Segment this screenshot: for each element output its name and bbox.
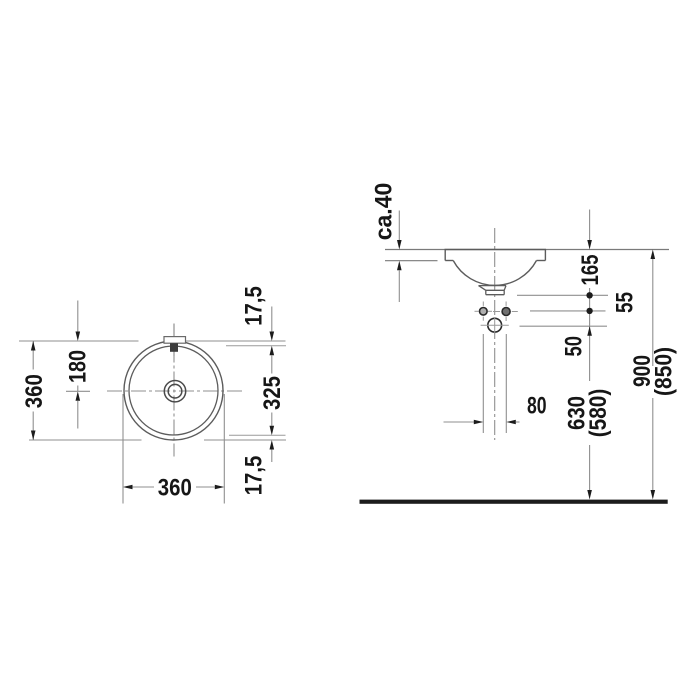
dimension column 165 / 55 / 50 / 630(580)	[560, 210, 638, 500]
basin rim front	[445, 249, 547, 261]
drain fitting front	[479, 286, 507, 295]
centerline horizontal (top view)	[107, 390, 244, 392]
ref line 165 level	[517, 294, 608, 296]
centerline vertical (top view)	[173, 324, 175, 457]
dimension 360 vertical left	[21, 341, 48, 440]
drain trap circle	[481, 317, 509, 334]
dimension 17,5 bottom right	[241, 440, 275, 495]
left supply fitting	[475, 302, 493, 321]
countertop bottom line	[385, 260, 438, 262]
extension line outer top left	[19, 340, 139, 342]
dimension 80	[444, 392, 547, 424]
floor line	[360, 500, 668, 504]
extension line outer bottom left	[29, 439, 142, 441]
centerline through tab	[173, 324, 175, 357]
drain outer circle (top view)	[164, 381, 185, 402]
extension line bottom left (360 width)	[122, 394, 124, 504]
dimension 325 right	[259, 346, 286, 435]
extension line outer top right	[186, 340, 286, 342]
dot at 55 level	[586, 308, 592, 314]
svg-text:325: 325	[259, 376, 286, 410]
svg-text:360: 360	[21, 374, 48, 408]
basin inner rim circle	[129, 346, 218, 435]
tap platform tab	[164, 337, 186, 344]
extension line outer bottom right	[204, 439, 286, 441]
dimension 17,5 top right	[241, 286, 275, 341]
overflow mark	[170, 343, 178, 352]
svg-text:17,5: 17,5	[241, 456, 268, 496]
extension line inner bottom right	[229, 434, 286, 436]
svg-text:165: 165	[577, 255, 604, 286]
ref line 50 level	[520, 325, 608, 327]
svg-text:(850): (850)	[651, 347, 678, 396]
dimension ca.40	[371, 183, 402, 302]
dimension 360 bottom	[123, 475, 224, 502]
waste pipe extension line right	[505, 334, 507, 433]
svg-text:55: 55	[612, 292, 639, 313]
svg-text:360: 360	[158, 475, 192, 502]
dimension 180	[65, 301, 92, 429]
basin outer rim circle	[124, 341, 223, 440]
svg-text:180: 180	[65, 350, 92, 383]
svg-text:50: 50	[560, 336, 587, 357]
extension line bottom right (360 width)	[223, 394, 225, 504]
arrow up at 50 level	[587, 326, 592, 336]
dot at 165 level	[586, 292, 592, 298]
basin bowl front	[453, 261, 536, 286]
svg-text:(580): (580)	[585, 389, 612, 438]
waste pipe extension line left	[482, 334, 484, 433]
centerline vertical (front view)	[494, 228, 496, 440]
right supply fitting	[493, 302, 518, 322]
ref line 55 level	[530, 310, 606, 312]
countertop top line	[385, 249, 669, 251]
svg-text:17,5: 17,5	[241, 286, 268, 326]
svg-text:80: 80	[527, 392, 547, 419]
dimension column 900(850)	[629, 250, 678, 500]
svg-text:ca.40: ca.40	[371, 183, 398, 241]
extension line inner top right	[226, 345, 286, 347]
drain inner circle (top view)	[168, 384, 182, 398]
